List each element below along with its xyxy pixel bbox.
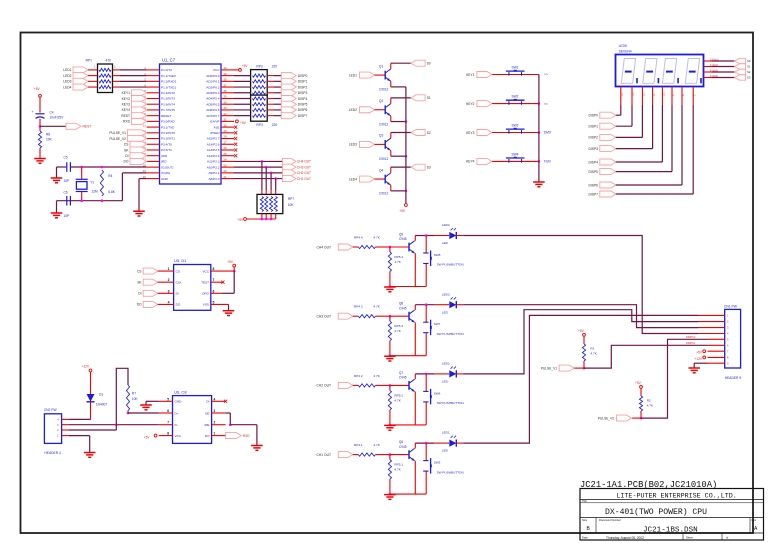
svg-text:Thursday, August 08, 2002: Thursday, August 08, 2002 bbox=[606, 536, 644, 540]
capacitor C4 10uF/25V bbox=[36, 114, 45, 119]
svg-text:RO: RO bbox=[205, 434, 210, 438]
resistor RP element AD4 bbox=[253, 97, 266, 100]
op-amp U1 MCU 8051 body bbox=[160, 64, 222, 184]
svg-text:DX-401(TWO POWER) CPU: DX-401(TWO POWER) CPU bbox=[605, 508, 707, 517]
svg-text:KEY4: KEY4 bbox=[466, 160, 475, 164]
svg-text:R4: R4 bbox=[108, 174, 112, 178]
U1 pin 40 VCC bbox=[221, 69, 234, 71]
port S0 at display bbox=[735, 58, 746, 63]
svg-text:6: 6 bbox=[213, 289, 215, 293]
+5V symbol transistor bus bbox=[405, 204, 408, 207]
display digit 4 bbox=[685, 59, 699, 84]
svg-text:S3: S3 bbox=[747, 76, 751, 80]
svg-text:VCC: VCC bbox=[175, 434, 182, 438]
ground channel CH4 bbox=[384, 287, 396, 292]
wire base node to Q bbox=[390, 246, 409, 248]
wire CN2 pin 1 to ground bbox=[69, 435, 90, 437]
U6 pin 1 RO bbox=[212, 435, 226, 437]
wire junction down to RP7 pin 1 bbox=[261, 161, 263, 190]
svg-text:P3.2/INT0: P3.2/INT0 bbox=[161, 131, 175, 135]
svg-text:SW PUSHBUTTON: SW PUSHBUTTON bbox=[437, 470, 464, 474]
wire junction down to RP7 pin 4 bbox=[275, 179, 277, 190]
U1 pin 27 A14/P2.6 bbox=[221, 143, 234, 145]
svg-text:RP5.2: RP5.2 bbox=[394, 393, 403, 397]
svg-text:2: 2 bbox=[168, 278, 170, 282]
resistor RP5.4 4.7K pulldown bbox=[389, 247, 391, 252]
svg-text:CH4 OUT: CH4 OUT bbox=[297, 160, 311, 164]
resistor RP1 element 2 bbox=[99, 74, 111, 77]
svg-text:22: 22 bbox=[224, 169, 228, 173]
wire C4 to reset node bbox=[39, 119, 41, 127]
node junction PULSE_V1 bbox=[583, 367, 586, 370]
svg-text:CH2 OUT: CH2 OUT bbox=[317, 384, 331, 388]
wire junction down to RP7 pin 2 bbox=[265, 167, 267, 190]
U1 pin 35 AD4/P0.4 bbox=[221, 98, 234, 100]
wire U1 pin 22 to CH2 OUT bbox=[234, 172, 283, 174]
U1 pin 18 X2(OUT) bbox=[147, 166, 160, 168]
svg-text:Rev: Rev bbox=[752, 518, 757, 522]
wire U6 GND to ground bbox=[146, 400, 159, 402]
node base junction CH3 bbox=[389, 315, 392, 318]
CN1 pin 7 stub bbox=[708, 350, 725, 352]
svg-text:RP5.1: RP5.1 bbox=[394, 463, 403, 467]
node emitter rail junction CH3 bbox=[389, 354, 392, 357]
port DISP5 bbox=[281, 101, 296, 107]
transistor Q8 C945 bbox=[409, 310, 415, 322]
svg-text:LITE-PUTER ENTERPRISE CO.,LTD.: LITE-PUTER ENTERPRISE CO.,LTD. bbox=[616, 493, 736, 501]
svg-text:12(dig1): 12(dig1) bbox=[710, 58, 719, 61]
+5V symbol at CN1 pin 7 bbox=[703, 350, 706, 353]
LED5 segment pin 6 stub bbox=[671, 87, 673, 106]
svg-text:U1, C7: U1, C7 bbox=[162, 58, 176, 63]
svg-text:REST: REST bbox=[121, 114, 130, 118]
crystal Y1 12M bbox=[81, 167, 83, 179]
U1 pin 3 P1.2/RXD1 bbox=[147, 80, 160, 82]
svg-text:4: 4 bbox=[214, 397, 216, 401]
U1 pin 26 A13/P2.5 bbox=[221, 149, 234, 151]
svg-text:FUN: FUN bbox=[544, 160, 551, 164]
wire LED2 to connector CN1 bbox=[456, 373, 463, 375]
svg-text:KEY3: KEY3 bbox=[466, 131, 475, 135]
svg-text:SW4: SW4 bbox=[512, 152, 519, 156]
wire Q2 emitter to +5V bus bbox=[390, 116, 392, 122]
wire Q3 emitter to +5V bus bbox=[390, 151, 392, 157]
svg-text:4.7K: 4.7K bbox=[373, 235, 380, 239]
CN2 pin 1 stub bbox=[62, 435, 69, 437]
svg-text:36: 36 bbox=[224, 89, 228, 93]
resistor RP element AD5 bbox=[253, 103, 266, 106]
wire Q6 collector up bbox=[414, 443, 416, 448]
svg-text:9 (dig2): 9 (dig2) bbox=[710, 64, 718, 67]
svg-text:DISP5: DISP5 bbox=[298, 103, 308, 107]
U1 pin 19 X1(IN) bbox=[147, 172, 160, 174]
wire X2 net bbox=[57, 166, 67, 168]
U6 pin 3 OE bbox=[212, 412, 226, 414]
svg-text:LED4: LED4 bbox=[349, 177, 357, 181]
capacitor C6 10P bbox=[67, 196, 71, 206]
wire R7 to U6 pin 6 bbox=[128, 412, 159, 414]
svg-text:CN2 PW: CN2 PW bbox=[44, 408, 58, 412]
node junction CH3 bbox=[270, 172, 273, 175]
U1 pin 37 AD2/P0.2 bbox=[221, 86, 234, 88]
wire LED4 to RP1 bbox=[88, 86, 98, 88]
svg-text:AD6/P0.6: AD6/P0.6 bbox=[206, 108, 220, 112]
svg-text:SW PUSHBUTTON: SW PUSHBUTTON bbox=[437, 332, 464, 336]
LED5 segment pin 3 stub bbox=[641, 87, 643, 106]
LED5 segment pin 8 stub bbox=[692, 87, 694, 106]
title block outline bbox=[580, 489, 764, 541]
svg-text:S1: S1 bbox=[427, 96, 431, 100]
display digit 1 bbox=[621, 59, 635, 84]
wire Q8 emitter down bbox=[414, 322, 416, 355]
ground channel CH2 bbox=[384, 425, 396, 430]
svg-text:DMX: DMX bbox=[544, 131, 552, 135]
svg-text:Size: Size bbox=[582, 518, 588, 522]
ground at U6 OE-RE bbox=[251, 446, 263, 451]
node X2 junction at R4 bbox=[101, 166, 104, 169]
wire base node to Q bbox=[390, 384, 409, 386]
svg-text:GND: GND bbox=[161, 177, 169, 181]
resistor RP4.3 4.7K bbox=[353, 315, 359, 317]
wire collector rail CH1 bbox=[415, 442, 434, 444]
svg-text:LED: LED bbox=[442, 310, 449, 314]
svg-text:KEY2: KEY2 bbox=[466, 102, 475, 106]
CN1 pin 1 stub bbox=[698, 314, 725, 316]
resistor RP element AD3 bbox=[253, 91, 266, 94]
svg-text:25: 25 bbox=[224, 152, 228, 156]
wire Q4 collector to S port bbox=[390, 167, 392, 173]
svg-text:+5V: +5V bbox=[399, 209, 406, 213]
wire RP7 bottom rail bbox=[247, 218, 276, 220]
LED5 segment pin 4 stub bbox=[652, 87, 654, 106]
svg-text:P1.7/INT5: P1.7/INT5 bbox=[161, 108, 175, 112]
resistor RP4.1 4.7K bbox=[353, 454, 359, 456]
svg-text:33: 33 bbox=[224, 106, 228, 110]
node switch junction CH2 bbox=[425, 373, 428, 376]
U6 pin 7 D- bbox=[159, 424, 173, 426]
wire Q1 collector to S port bbox=[390, 63, 392, 69]
svg-text:LED2: LED2 bbox=[442, 362, 450, 366]
svg-text:RXD: RXD bbox=[243, 434, 250, 438]
svg-text:38: 38 bbox=[224, 78, 228, 82]
svg-text:X2(OUT): X2(OUT) bbox=[161, 165, 173, 169]
svg-text:+5V: +5V bbox=[240, 121, 247, 125]
svg-text:LED1: LED1 bbox=[63, 68, 71, 72]
svg-text:+5V: +5V bbox=[578, 329, 585, 333]
svg-text:AD3/P0.3: AD3/P0.3 bbox=[206, 91, 220, 95]
svg-text:LED4: LED4 bbox=[63, 85, 71, 89]
svg-text:Date:: Date: bbox=[582, 536, 588, 540]
wire Q9 emitter down bbox=[414, 253, 416, 286]
CN2 pin 3 stub bbox=[62, 424, 69, 426]
svg-text:VCC: VCC bbox=[202, 269, 209, 273]
svg-text:>>: >> bbox=[544, 73, 548, 77]
node junction PULSE_V2 bbox=[640, 417, 643, 420]
U1 pin 14 P3.4/T0 bbox=[147, 143, 160, 145]
+5V symbol at R1 bbox=[583, 333, 586, 336]
U1 pin 7 P1.6/INT4 bbox=[147, 103, 160, 105]
svg-text:DISP5: DISP5 bbox=[588, 170, 598, 174]
svg-text:PULSE_V1: PULSE_V1 bbox=[541, 366, 557, 370]
wire Q6 emitter down bbox=[414, 461, 416, 494]
svg-text:A13/P2.5: A13/P2.5 bbox=[207, 148, 220, 152]
switch SW6 SW PUSHBUTTON bbox=[425, 374, 427, 392]
svg-text:C9012: C9012 bbox=[379, 157, 389, 161]
svg-text:LED4: LED4 bbox=[442, 223, 450, 227]
svg-text:P3.1/TXD: P3.1/TXD bbox=[161, 125, 175, 129]
wire U5 VCC pin 8 to +5V bbox=[211, 270, 234, 272]
wire base node to Q bbox=[390, 315, 409, 317]
port S1 bbox=[411, 95, 425, 101]
svg-text:DISP3: DISP3 bbox=[588, 147, 598, 151]
svg-text:P3.3/INT1: P3.3/INT1 bbox=[161, 137, 175, 141]
node base junction CH2 bbox=[389, 384, 392, 387]
resistor RP7 element 2 bbox=[265, 197, 268, 212]
U1 pin 9 RESET bbox=[147, 115, 160, 117]
ground key bus bbox=[533, 182, 545, 187]
resistor R8 10K bbox=[39, 126, 41, 131]
resistor pack RP1 body bbox=[98, 64, 113, 93]
wire KEY3 to SW3 bbox=[492, 132, 539, 134]
wire LED4 to connector CN1 bbox=[456, 235, 463, 237]
wire U1 AD3 to RP pack bbox=[234, 92, 251, 94]
port S2 bbox=[411, 130, 425, 136]
U1 pin 12 P3.2/INT0 bbox=[147, 132, 160, 134]
svg-text:LED3: LED3 bbox=[349, 143, 357, 147]
svg-text:P1.3/TXD1: P1.3/TXD1 bbox=[161, 85, 176, 89]
svg-text:LED3: LED3 bbox=[442, 292, 450, 296]
node junction CH2 bbox=[265, 166, 268, 169]
svg-text:JC21-1BS.DSN: JC21-1BS.DSN bbox=[643, 527, 698, 535]
port DISP2 bbox=[281, 84, 296, 90]
svg-text:5: 5 bbox=[167, 397, 169, 401]
transistor Q4 C9012 bbox=[385, 173, 391, 185]
U6 pin 2 /RE bbox=[212, 424, 226, 426]
capacitor C5 10P bbox=[67, 162, 71, 172]
svg-text:SW2: SW2 bbox=[512, 95, 519, 99]
resistor RP7 element 3 bbox=[270, 197, 273, 212]
port CH2 OUT bbox=[283, 170, 297, 176]
switch SW1 pushbutton bbox=[506, 71, 525, 76]
ground at CN1 bbox=[688, 368, 700, 373]
svg-text:DISP3: DISP3 bbox=[298, 91, 308, 95]
svg-text:AD2/P0.2: AD2/P0.2 bbox=[206, 85, 220, 89]
svg-text:LED1: LED1 bbox=[442, 431, 450, 435]
svg-text:+5V: +5V bbox=[238, 218, 245, 222]
svg-text:1: 1 bbox=[168, 267, 170, 271]
wire Q8 collector up bbox=[414, 305, 416, 310]
svg-text:S2: S2 bbox=[747, 70, 751, 74]
CN1 pin 4 stub bbox=[698, 333, 725, 335]
svg-text:RP5.3: RP5.3 bbox=[394, 324, 403, 328]
port DISP6 bbox=[281, 107, 296, 113]
svg-text:<<: << bbox=[544, 102, 548, 106]
svg-text:A15/P2.7: A15/P2.7 bbox=[207, 137, 220, 141]
wire +5V to C4 bbox=[39, 97, 41, 113]
wire RP1 to U1 pin 4 bbox=[113, 86, 121, 88]
svg-text:C6: C6 bbox=[64, 191, 68, 195]
wire C5 left to ground bbox=[56, 167, 58, 178]
LED5 digit common pin 1 bbox=[704, 60, 713, 62]
wire RP4.3 to base node bbox=[375, 315, 390, 317]
wire Q3 collector to S port bbox=[390, 133, 392, 139]
node junction CN2 pin3 net bbox=[115, 423, 118, 426]
wire RP pack to DISP7 port bbox=[267, 115, 274, 117]
svg-text:P3.0/RXD: P3.0/RXD bbox=[161, 120, 176, 124]
svg-text:DISP7: DISP7 bbox=[588, 192, 598, 196]
svg-text:1N4007: 1N4007 bbox=[96, 403, 107, 407]
svg-text:10P: 10P bbox=[64, 214, 70, 218]
svg-text:of: of bbox=[726, 536, 728, 540]
svg-text:470: 470 bbox=[106, 59, 112, 63]
wire LED1 port to base bbox=[375, 74, 386, 76]
svg-text:3: 3 bbox=[214, 409, 216, 413]
svg-text:32: 32 bbox=[224, 112, 228, 116]
LED diode LED3 indicator bbox=[449, 301, 456, 308]
svg-text:+5V: +5V bbox=[144, 435, 151, 439]
svg-text:PULSE_V2: PULSE_V2 bbox=[598, 416, 614, 420]
U1 pin 38 AD1/P0.1 bbox=[221, 80, 234, 82]
wire U1 AD4 to RP pack bbox=[234, 98, 251, 100]
wire U1 AD2 to RP pack bbox=[234, 86, 251, 88]
node reset junction bbox=[39, 125, 42, 128]
svg-text:C945: C945 bbox=[399, 306, 407, 310]
wire D1 to CN2 pin 4 bbox=[90, 402, 92, 419]
port RXD at U6 bbox=[226, 433, 242, 439]
U6 pin 6 D+ bbox=[159, 412, 173, 414]
no-connect U5 TEST pin 7 bbox=[211, 281, 223, 283]
U1 pin 32 AD7/P0.7 bbox=[221, 115, 234, 117]
svg-text:U6, C8: U6, C8 bbox=[174, 389, 187, 394]
svg-text:220: 220 bbox=[272, 64, 278, 68]
svg-text:Q7: Q7 bbox=[399, 371, 403, 375]
svg-text:27: 27 bbox=[224, 140, 228, 144]
wire DI to U5 pin 3 bbox=[158, 292, 174, 294]
svg-text:DO: DO bbox=[176, 303, 181, 307]
wire Q7 emitter down bbox=[414, 392, 416, 425]
resistor RP1 element 4 bbox=[99, 85, 111, 88]
svg-text:+5V: +5V bbox=[635, 381, 642, 385]
svg-text:ORG: ORG bbox=[202, 292, 210, 296]
wire RP4.4 to base node bbox=[375, 246, 390, 248]
node base junction CH4 bbox=[389, 246, 392, 249]
port DISP0 bbox=[281, 73, 296, 79]
transistor Q7 C945 bbox=[409, 379, 415, 391]
node junctions RP7 rail bbox=[261, 218, 264, 221]
svg-text:DO: DO bbox=[124, 160, 129, 164]
svg-text:DISP1: DISP1 bbox=[588, 125, 598, 129]
switch SW5 SW PUSHBUTTON bbox=[425, 443, 427, 461]
svg-text:AD0/P0.0: AD0/P0.0 bbox=[206, 74, 220, 78]
svg-text:ALE: ALE bbox=[214, 125, 220, 129]
resistor pack RP7 body bbox=[257, 194, 283, 213]
svg-text:+5V: +5V bbox=[696, 351, 703, 355]
resistor RP5.2 4.7K pulldown bbox=[389, 385, 391, 390]
svg-text:DO: DO bbox=[137, 303, 142, 307]
U1 pin 23 A10/P2.2 bbox=[221, 166, 234, 168]
wire DISP2 to LED5 pin bbox=[616, 136, 643, 138]
svg-text:P3.4/T0: P3.4/T0 bbox=[161, 142, 172, 146]
port CH3 OUT bbox=[283, 164, 297, 170]
wire RP7 pin to +5V rail bbox=[265, 214, 267, 219]
wire PULSE_V1 to CN1 pin 6 bbox=[574, 367, 584, 369]
U1 pin 10 P3.0/RXD bbox=[147, 120, 160, 122]
node junction U5 VCC bbox=[233, 270, 236, 273]
svg-text:S3: S3 bbox=[427, 165, 431, 169]
svg-text:CLK: CLK bbox=[176, 281, 183, 285]
wire X1 up to U1 pin 19 bbox=[121, 173, 123, 201]
wire LED2 port to base bbox=[375, 109, 386, 111]
no-connect U6 pin 4 bbox=[224, 400, 227, 403]
svg-text:Q8: Q8 bbox=[399, 302, 403, 306]
svg-text:+5V: +5V bbox=[34, 87, 41, 91]
wire LED1 to RP1 bbox=[88, 69, 98, 71]
svg-text:/RE: /RE bbox=[204, 423, 209, 427]
svg-text:26: 26 bbox=[224, 146, 228, 150]
svg-text:RP3: RP3 bbox=[256, 123, 263, 127]
port S1 at display bbox=[735, 64, 746, 69]
ground at U1 GND bbox=[133, 211, 145, 216]
svg-text:DISP7: DISP7 bbox=[298, 114, 308, 118]
wire U1 AD1 to RP pack bbox=[234, 80, 251, 82]
svg-text:+5V: +5V bbox=[227, 260, 234, 264]
LED diode LED1 indicator bbox=[449, 440, 456, 447]
svg-text:C945: C945 bbox=[399, 376, 407, 380]
wire emitter rail CH1 bbox=[390, 493, 426, 495]
resistor R7 10K bbox=[126, 385, 129, 411]
svg-text:8: 8 bbox=[213, 267, 215, 271]
svg-text:SW PUSHBUTTON: SW PUSHBUTTON bbox=[437, 263, 464, 267]
svg-text:CS: CS bbox=[176, 269, 180, 273]
node emitter rail junction CH4 bbox=[389, 285, 392, 288]
svg-text:D-: D- bbox=[175, 423, 178, 427]
port S0 bbox=[411, 60, 425, 66]
U1 pin 29 /PSEN bbox=[221, 132, 234, 134]
svg-text:RP7: RP7 bbox=[288, 197, 295, 201]
+5V symbol at U6 VCC bbox=[154, 434, 157, 437]
svg-text:A10/P2.2: A10/P2.2 bbox=[207, 165, 220, 169]
svg-text:Q4: Q4 bbox=[379, 168, 384, 172]
resistor RP1 element 1 bbox=[99, 68, 111, 71]
svg-text:4: 4 bbox=[168, 300, 170, 304]
wire DISP4 to LED5 pin bbox=[616, 161, 663, 163]
svg-text:12M: 12M bbox=[92, 190, 99, 194]
resistor RP element AD0 bbox=[253, 74, 266, 77]
svg-text:R8: R8 bbox=[46, 133, 50, 137]
svg-text:37: 37 bbox=[224, 83, 228, 87]
wire RP7 pin to +5V rail bbox=[270, 214, 272, 219]
CN1 pin 3 stub bbox=[698, 327, 725, 329]
CN1 pin 9 stub bbox=[708, 362, 725, 364]
wire DISP1 to LED5 pin bbox=[616, 125, 632, 127]
wire OE-RE to ground bbox=[230, 424, 257, 426]
wire CS to U5 pin 1 bbox=[158, 270, 174, 272]
wire junction down to RP7 pin 3 bbox=[270, 173, 272, 190]
port CH4 OUT bbox=[283, 158, 297, 164]
wire R8 to ground bbox=[39, 148, 41, 158]
transistor Q1 C9012 bbox=[385, 69, 391, 81]
wire RP1 to U1 pin 1 bbox=[113, 69, 121, 71]
port DISP3 bbox=[281, 90, 296, 96]
transistor Q2 C9012 bbox=[385, 104, 391, 116]
port CH1 OUT bbox=[283, 176, 297, 182]
wire U6 OE to /RE tie bbox=[226, 412, 231, 414]
resistor RP1 element 3 bbox=[99, 80, 111, 83]
svg-text:10K: 10K bbox=[46, 138, 53, 142]
svg-text:2: 2 bbox=[214, 421, 216, 425]
svg-text:DISP4: DISP4 bbox=[298, 97, 308, 101]
resistor RP7 element 4 bbox=[274, 197, 277, 212]
